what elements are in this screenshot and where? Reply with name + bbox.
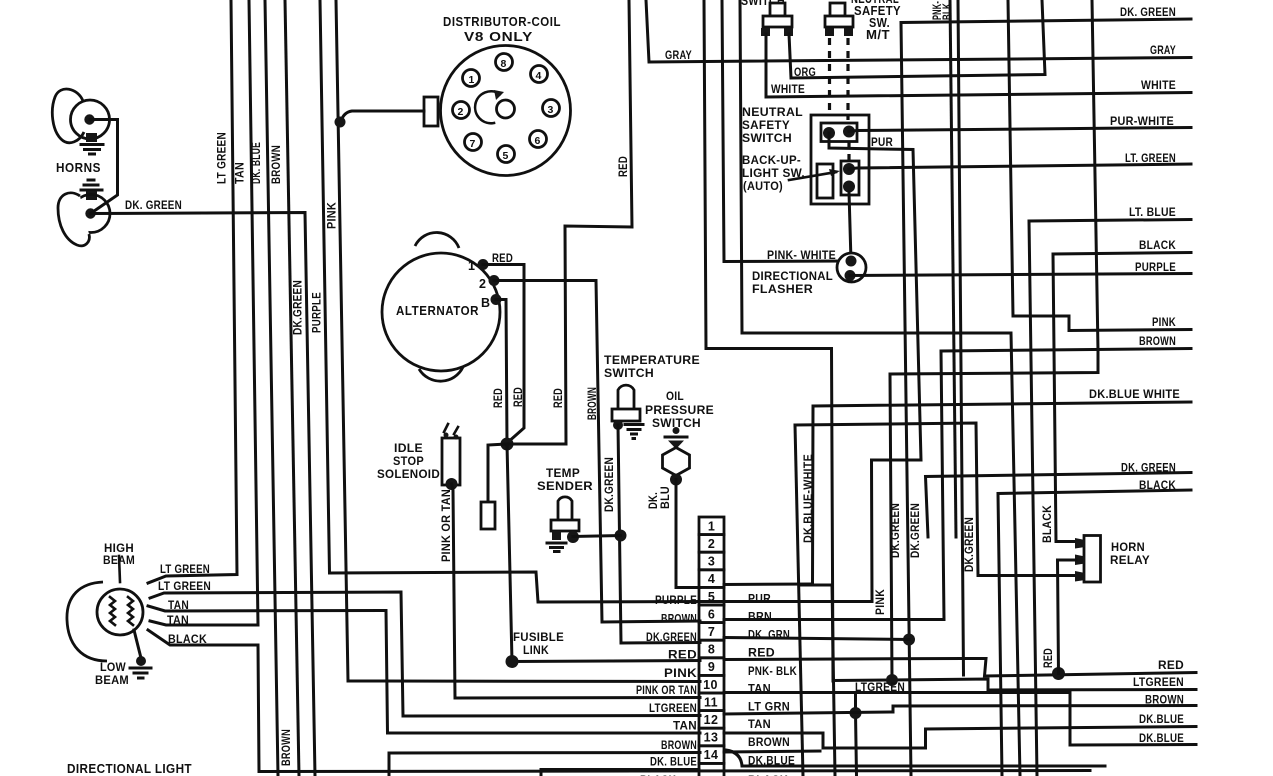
svg-text:8: 8	[501, 58, 507, 70]
svg-text:PNK- BLK: PNK- BLK	[748, 666, 797, 678]
wire stop light switch right terminal to ORG	[789, 0, 1045, 78]
svg-text:4: 4	[536, 70, 542, 82]
horn relay terminal t2	[1075, 555, 1085, 566]
svg-text:DK.BLUE WHITE: DK.BLUE WHITE	[1089, 389, 1180, 401]
svg-text:PUR-WHITE: PUR-WHITE	[1110, 116, 1174, 128]
svg-text:2: 2	[708, 537, 715, 551]
svg-text:DK. GREEN: DK. GREEN	[1120, 7, 1176, 19]
svg-text:LT GREEN: LT GREEN	[160, 564, 210, 576]
distributor cap terminal 3	[543, 100, 560, 117]
temperature switch ground	[625, 425, 643, 439]
svg-text:ORG: ORG	[794, 67, 816, 79]
svg-text:M/T: M/T	[866, 28, 890, 42]
svg-text:DK.BLUE: DK.BLUE	[748, 756, 795, 768]
svg-text:LTGREEN: LTGREEN	[649, 703, 697, 715]
distributor cap terminal 1	[463, 70, 480, 87]
wire LT.GREEN from top contact	[849, 164, 1191, 169]
svg-text:V8 ONLY: V8 ONLY	[464, 29, 533, 44]
svg-text:LT. GREEN: LT. GREEN	[1125, 153, 1176, 165]
wire PUR-WHITE from right contact	[849, 128, 1191, 132]
svg-text:LTGREEN: LTGREEN	[1133, 677, 1184, 689]
svg-text:PURPLE: PURPLE	[1135, 262, 1176, 274]
svg-text:OIL: OIL	[666, 391, 684, 403]
wire RED loop from top right down to junction	[507, 0, 632, 444]
wire horn relay t2 down to RED dot	[1058, 560, 1077, 674]
headlight filament zigzag 2	[128, 597, 133, 625]
svg-text:BROWN: BROWN	[661, 740, 697, 752]
wire DK.GREEN from horn H2	[91, 213, 316, 776]
wire B/RED down to fusible link dot and row8	[507, 444, 700, 662]
svg-text:11: 11	[704, 695, 718, 709]
wire BROWN to connector row6	[724, 349, 1191, 620]
wire DK.GREEN temp switch to row7	[618, 425, 700, 643]
svg-text:RED: RED	[493, 388, 505, 408]
svg-text:12: 12	[704, 713, 719, 727]
wire PINK-WHITE to flasher	[722, 0, 845, 262]
svg-text:1: 1	[468, 259, 475, 273]
headlight filament zigzag 1	[110, 597, 115, 625]
svg-text:DK.GREEN: DK.GREEN	[964, 517, 976, 572]
junction dot at B wire	[501, 438, 514, 451]
svg-text:RED: RED	[553, 388, 565, 408]
horn H2 body (fan)	[58, 193, 89, 246]
junction dot row11	[850, 707, 862, 719]
svg-text:HORNS: HORNS	[56, 160, 101, 175]
svg-text:PINK: PINK	[664, 668, 697, 680]
svg-text:IDLE: IDLE	[394, 443, 423, 455]
svg-text:LT GREEN: LT GREEN	[158, 581, 211, 593]
svg-text:SWITCH: SWITCH	[742, 133, 792, 145]
svg-text:BROWN: BROWN	[587, 387, 599, 420]
wire PINK OR TAN to row10	[452, 484, 701, 698]
horn relay terminal t1	[1075, 538, 1085, 549]
svg-text:LT GRN: LT GRN	[748, 702, 790, 714]
wire LT.GREEN vertical	[148, 0, 237, 583]
svg-text:BROWN: BROWN	[271, 145, 283, 184]
svg-text:2: 2	[458, 106, 464, 118]
svg-text:PINK: PINK	[1152, 317, 1176, 329]
alternator terminal 2 dot	[489, 275, 500, 286]
svg-text:13: 13	[704, 731, 719, 745]
wire DK.GREEN 2 short drop	[926, 473, 1192, 538]
svg-text:DK.GREEN: DK.GREEN	[293, 280, 305, 335]
svg-text:BROWN: BROWN	[1139, 336, 1176, 348]
alternator terminal 1 dot	[478, 259, 489, 270]
stop light switch body	[763, 16, 792, 27]
svg-text:RED: RED	[748, 648, 775, 660]
horn H2 ground terminal	[86, 191, 97, 200]
junction dot row7 on DK.GREEN drop	[903, 634, 915, 646]
wire LT GREEN 2 to row11	[150, 592, 700, 716]
svg-text:BROWN: BROWN	[748, 737, 790, 749]
svg-text:BROWN: BROWN	[1145, 695, 1184, 707]
svg-text:DK. GRN: DK. GRN	[748, 630, 790, 642]
alternator terminal B dot	[491, 294, 502, 305]
connector pin numbers	[703, 520, 718, 763]
wire BLACK drop to bottom	[998, 490, 1191, 776]
directional flasher circle	[837, 253, 866, 282]
svg-text:PINK: PINK	[327, 202, 339, 229]
connector block boxes	[699, 517, 724, 776]
high beam pointer	[119, 556, 120, 582]
temp sender ground symbol	[547, 543, 566, 552]
wire row8 to RED right edge	[724, 659, 1196, 677]
headlight bulb circle	[97, 589, 143, 635]
svg-text:8: 8	[708, 643, 715, 657]
back-up light switch arrow	[789, 172, 836, 180]
horn H1 terminal dot	[84, 114, 94, 124]
stop light switch cap	[770, 3, 785, 16]
svg-text:GRAY: GRAY	[1150, 45, 1176, 57]
wire stop light switch left terminal to WHITE	[766, 34, 1191, 97]
wire row10 to DK.BLUE 2 right edge	[724, 693, 1196, 746]
svg-text:PUR: PUR	[871, 137, 893, 149]
oil pressure switch top cap	[673, 427, 680, 434]
svg-text:HORN: HORN	[1111, 542, 1145, 554]
svg-text:LT GREEN: LT GREEN	[217, 132, 229, 184]
junction dot horn relay t2 drop on RED	[1052, 667, 1065, 680]
junction dot temp sender / DK.GREEN	[615, 530, 627, 542]
svg-text:SOLENOID: SOLENOID	[377, 469, 440, 481]
svg-text:WHITE: WHITE	[771, 84, 805, 96]
temperature switch base	[612, 409, 640, 421]
wire BLK vertical	[958, 0, 964, 675]
svg-text:DIRECTIONAL: DIRECTIONAL	[752, 271, 833, 283]
wire coil to PINK line	[341, 111, 424, 121]
svg-text:DK. BLUE: DK. BLUE	[650, 757, 697, 769]
svg-text:TAN: TAN	[167, 615, 189, 627]
svg-text:DK.: DK.	[648, 492, 660, 509]
svg-text:PINK: PINK	[875, 589, 887, 615]
svg-text:RED: RED	[1043, 648, 1055, 668]
coil terminal block	[424, 97, 438, 126]
svg-text:BROWN: BROWN	[281, 729, 293, 766]
wire horn H1 to horn H2	[90, 120, 118, 214]
svg-text:PRESSURE: PRESSURE	[645, 405, 714, 417]
svg-text:5: 5	[708, 590, 715, 604]
svg-text:RED: RED	[668, 650, 697, 662]
oil pressure switch bottom dot	[670, 474, 682, 486]
wire PURPLE vertical to connector row5	[320, 0, 700, 602]
wire DK.BLUE-WHITE riser jog	[801, 585, 835, 776]
temperature switch bulb	[618, 385, 634, 411]
svg-text:10: 10	[703, 678, 718, 692]
svg-text:DK.BLUE: DK.BLUE	[1139, 714, 1184, 726]
distributor cap terminal 8	[496, 54, 513, 71]
wire row9 junction to LTGREEN right edge	[833, 679, 1196, 690]
neutral safety switch contact box	[821, 123, 857, 142]
oil pressure switch triangle	[668, 441, 684, 450]
temp sender base	[551, 520, 579, 531]
svg-text:6: 6	[708, 607, 715, 621]
wire alternator terminal B down	[496, 300, 507, 445]
temp sender bulb	[558, 497, 572, 521]
svg-text:TAN: TAN	[748, 684, 771, 696]
headlight ground stem	[134, 630, 141, 658]
svg-text:FLASHER: FLASHER	[752, 284, 813, 296]
temp sender ground terminal	[552, 531, 561, 540]
wire DK.BLUE WHITE to connector row4	[813, 402, 1192, 584]
svg-text:BACK-UP-: BACK-UP-	[742, 155, 801, 167]
dashed wire right M/T	[846, 38, 849, 120]
horn H1 body (fan)	[52, 89, 84, 143]
svg-text:BROWN: BROWN	[661, 614, 697, 626]
distributor cap terminal 6	[530, 131, 547, 148]
neutral safety switch contact dots	[823, 127, 835, 139]
back-up light contact dots	[843, 163, 855, 175]
wire LT.BLUE down the middle	[1029, 220, 1191, 776]
fusible link junction dot	[506, 655, 519, 668]
svg-text:DK.BLUE-WHITE: DK.BLUE-WHITE	[803, 454, 815, 543]
junction dot coil wire / PINK	[335, 117, 346, 128]
svg-text:FUSIBLE: FUSIBLE	[513, 632, 564, 644]
svg-text:PINK OR TAN: PINK OR TAN	[441, 489, 453, 562]
svg-text:TEMP: TEMP	[546, 468, 580, 480]
svg-text:B: B	[481, 296, 490, 310]
svg-text:7: 7	[708, 625, 715, 639]
wire PNK vertical	[950, 0, 956, 537]
svg-text:7: 7	[470, 138, 476, 150]
svg-text:PINK OR TAN: PINK OR TAN	[636, 685, 697, 697]
idle stop solenoid brush marks	[444, 424, 458, 434]
wire PUR from left contact to connector row5	[700, 133, 921, 602]
oil pressure switch hex body	[663, 448, 690, 476]
headlight reflector fan	[67, 582, 107, 661]
svg-text:3: 3	[548, 104, 554, 116]
svg-text:LOW: LOW	[100, 662, 126, 674]
svg-text:4: 4	[708, 572, 715, 586]
wire row4 to box	[724, 583, 813, 587]
wire row11 to BROWN right edge	[724, 706, 1196, 715]
horn H1 bell circle	[71, 100, 110, 139]
alternator bottom boss	[419, 367, 463, 381]
wire PINK vertical (distributor feed) to connector row9	[336, 0, 700, 682]
svg-text:LINK: LINK	[523, 645, 549, 657]
svg-text:GRAY: GRAY	[665, 50, 692, 62]
wire PNK-BLK riser x704	[704, 0, 833, 681]
svg-text:PURPLE: PURPLE	[312, 292, 324, 333]
svg-text:DISTRIBUTOR-COIL: DISTRIBUTOR-COIL	[443, 14, 561, 29]
svg-text:RED: RED	[513, 387, 525, 407]
neutral safety switch M/T body	[825, 16, 853, 27]
wire 1096 vertical to PINK drop	[890, 0, 1098, 680]
wire temp sender to DK.GREEN junction	[573, 536, 621, 537]
svg-text:3: 3	[708, 555, 715, 569]
svg-text:14: 14	[704, 748, 719, 762]
wire row14 left	[541, 770, 699, 776]
horn H2 ground symbol (inverted)	[81, 180, 102, 190]
svg-text:2: 2	[479, 277, 486, 291]
junction dot PINK drop on LTGREEN wire	[886, 674, 898, 686]
headlight ground symbol	[130, 668, 151, 678]
svg-text:RELAY: RELAY	[1110, 555, 1150, 567]
svg-text:(AUTO): (AUTO)	[743, 181, 783, 193]
svg-text:DK.GREEN: DK.GREEN	[604, 457, 616, 512]
svg-text:SAFETY: SAFETY	[742, 120, 790, 132]
svg-text:NEUTRAL: NEUTRAL	[742, 107, 803, 119]
svg-text:SENDER: SENDER	[537, 481, 593, 493]
idle stop solenoid body	[442, 438, 460, 485]
horn H2 terminal dot	[85, 208, 95, 218]
alternator body circle	[382, 253, 500, 371]
svg-text:TEMPERATURE: TEMPERATURE	[604, 355, 700, 367]
neutral safety switch M/T terminal dots	[825, 28, 834, 36]
neutral safety switch outer box	[811, 115, 869, 204]
wire BROWN vertical	[285, 0, 299, 776]
wire DK.BLUE-WHITE riser (to bottom)	[795, 425, 803, 776]
wire BROWN row13 from bottom	[389, 753, 700, 776]
wire BLACK to horn relay t1	[1053, 253, 1191, 542]
horn H1 ground terminal	[86, 133, 97, 142]
temperature switch left terminal dot	[613, 420, 623, 430]
wire alternator terminal 1	[483, 265, 524, 444]
wire PINK from long vertical	[1008, 0, 1191, 331]
wire DK.BLU to connector row4	[676, 480, 700, 588]
svg-text:9: 9	[708, 660, 715, 674]
horn relay terminal t3	[1075, 571, 1085, 582]
neutral safety switch M/T cap	[830, 3, 845, 16]
wire x740 vertical to 1011 drop	[740, 0, 1020, 776]
wire alternator terminal 2 (BROWN) to row6	[494, 281, 700, 623]
idle stop solenoid terminal dot	[446, 478, 458, 490]
distributor cap terminal 5	[498, 146, 515, 163]
wire DK.BLUE vertical	[265, 0, 278, 776]
wire row12 to DK.BLUE right edge	[724, 727, 1196, 749]
svg-text:RED: RED	[1158, 660, 1184, 672]
svg-text:ALTERNATOR: ALTERNATOR	[396, 303, 479, 318]
distributor rotation arrow	[475, 91, 500, 123]
svg-text:BLACK: BLACK	[1042, 505, 1054, 543]
wire PURPLE from flasher to right edge	[850, 274, 1191, 276]
svg-text:BEAM: BEAM	[95, 675, 129, 687]
flasher top terminal dot	[846, 256, 857, 267]
connector left labels	[636, 595, 697, 769]
dashed wire left M/T	[828, 38, 831, 116]
svg-text:SWITCH: SWITCH	[604, 368, 654, 380]
horn H2 bell circle	[72, 195, 110, 233]
stub row10 to row11	[856, 693, 857, 776]
svg-text:HIGH: HIGH	[104, 543, 134, 555]
svg-text:TAN: TAN	[235, 162, 247, 184]
distributor cap terminal 2	[453, 102, 470, 119]
svg-text:TAN: TAN	[748, 719, 771, 731]
wire TAN vertical	[150, 0, 258, 625]
stop light switch terminal dots	[761, 28, 770, 36]
distributor rotor center circle	[497, 100, 515, 118]
svg-text:BRN: BRN	[748, 612, 772, 624]
svg-text:PURPLE: PURPLE	[655, 595, 697, 607]
wire GRAY	[646, 0, 1191, 62]
distributor cap terminal 4	[531, 66, 548, 83]
svg-text:DIRECTIONAL LIGHT: DIRECTIONAL LIGHT	[67, 762, 192, 776]
wire DK.BLUE-WHITE horizontal to DK.GREEN2 drop	[795, 423, 1075, 576]
svg-text:BLACK: BLACK	[1139, 240, 1176, 252]
svg-text:RED: RED	[618, 156, 630, 177]
back-up light switch left block	[817, 164, 833, 198]
wire row15 BLACK bottom	[259, 771, 1090, 772]
wire row13 short right	[724, 751, 820, 752]
wire TAN 1 to row12	[148, 606, 700, 733]
temp sender right terminal dot	[567, 531, 579, 543]
svg-text:LT. BLUE: LT. BLUE	[1129, 207, 1176, 219]
svg-text:DK.BLUE: DK.BLUE	[1139, 733, 1184, 745]
wire row13 curve DK.BLUE	[726, 750, 1105, 766]
svg-text:DK.GREEN: DK.GREEN	[890, 503, 902, 558]
headlight ground dot	[136, 656, 146, 666]
wire DK.GREEN top right, down the middle	[901, 19, 1191, 776]
wire bottom contact down to flasher	[849, 192, 851, 261]
svg-text:STOP: STOP	[393, 456, 424, 468]
svg-text:5: 5	[503, 150, 509, 162]
horn relay body	[1084, 536, 1101, 583]
svg-text:WHITE: WHITE	[1141, 80, 1176, 92]
svg-text:1: 1	[469, 74, 475, 86]
svg-text:DK. BLUE: DK. BLUE	[251, 142, 263, 184]
svg-text:BLK: BLK	[942, 3, 954, 20]
svg-text:DK.GREEN: DK.GREEN	[910, 503, 922, 558]
svg-text:1: 1	[708, 520, 715, 534]
horn H1 ground symbol	[81, 145, 103, 155]
wire row7 to dot	[724, 638, 909, 640]
connector stub block	[481, 502, 495, 529]
short dashes inside box	[847, 141, 850, 160]
distributor cap terminal 7	[465, 134, 482, 151]
connector right labels	[748, 594, 797, 768]
wire BLACK headlight to row15 line	[148, 630, 259, 772]
svg-text:PUR: PUR	[748, 594, 771, 606]
distributor body circle	[441, 46, 571, 176]
svg-text:DK. GREEN: DK. GREEN	[125, 200, 182, 212]
back-up light switch contact box	[841, 161, 859, 195]
flasher bottom terminal dot	[845, 270, 856, 281]
svg-text:DK.GREEN: DK.GREEN	[646, 632, 697, 644]
wire junction to connector block stub	[488, 444, 507, 502]
alternator top boss	[415, 233, 459, 248]
svg-text:TAN: TAN	[673, 721, 697, 733]
svg-text:BLU: BLU	[660, 486, 672, 509]
svg-text:6: 6	[535, 135, 541, 147]
